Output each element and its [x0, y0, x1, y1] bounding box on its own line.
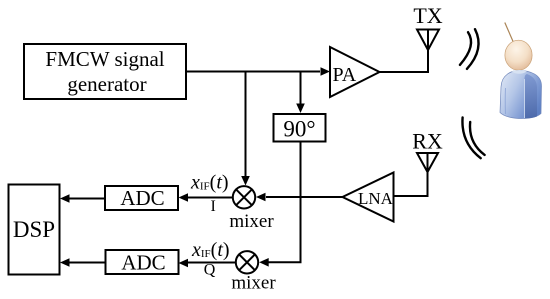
person target — [500, 23, 542, 119]
block 90 degree phase shifter — [274, 114, 326, 142]
person right arm shading — [525, 74, 538, 119]
mixer Q (multiplier) — [231, 251, 276, 293]
block FMCW signal generator — [24, 44, 186, 99]
svg-text:mixer: mixer — [231, 273, 276, 294]
wire RX antenna to LNA — [394, 172, 428, 196]
label xIF(t) Q-channel — [191, 239, 230, 279]
svg-text:xIF(t): xIF(t) — [191, 239, 230, 261]
svg-text:FMCW signal: FMCW signal — [45, 47, 164, 71]
svg-text:LNA: LNA — [358, 189, 394, 208]
wire 90-degree box to mixer Q — [259, 142, 300, 267]
wire branch down to mixer I (LO) — [241, 72, 250, 186]
wire mixer I to ADC (I channel) — [179, 193, 234, 202]
svg-text:ADC: ADC — [121, 251, 165, 275]
TX radiated wave arcs — [460, 29, 479, 69]
wire ADC Q to DSP — [60, 258, 105, 267]
block ADC Q — [106, 250, 179, 275]
svg-text:90°: 90° — [283, 117, 315, 142]
amplifier PA — [330, 47, 380, 97]
svg-text:mixer: mixer — [229, 211, 274, 232]
person head — [505, 40, 532, 70]
wire FMCW output to PA — [186, 67, 330, 76]
svg-text:generator: generator — [67, 72, 146, 96]
person collar — [512, 70, 528, 74]
svg-text:ADC: ADC — [120, 186, 164, 210]
label xIF(t) I-channel — [190, 172, 229, 216]
wire branch down to 90-degree box — [296, 72, 305, 114]
person body — [500, 71, 542, 119]
wire ADC I to DSP — [60, 194, 105, 203]
svg-text:PA: PA — [333, 64, 357, 86]
svg-text:DSP: DSP — [13, 217, 55, 242]
antenna TX — [413, 3, 442, 50]
svg-text:RX: RX — [412, 129, 443, 154]
mixer I (multiplier) — [229, 186, 274, 232]
wire mixer Q to ADC (Q channel) — [179, 259, 236, 268]
wire PA to TX antenna — [380, 49, 429, 72]
svg-text:xIF(t): xIF(t) — [190, 172, 229, 194]
block ADC I — [105, 186, 178, 210]
svg-text:Q: Q — [204, 262, 216, 279]
svg-text:I: I — [211, 198, 216, 215]
RX reflected wave arcs — [462, 118, 484, 159]
person arm highlight seam — [524, 79, 526, 118]
amplifier LNA — [343, 173, 394, 222]
block DSP — [9, 185, 60, 275]
antenna RX — [412, 129, 443, 173]
person left arm seam — [504, 88, 506, 114]
person hair strand — [505, 23, 514, 43]
wire LNA to mixer I — [256, 193, 343, 202]
svg-text:TX: TX — [413, 3, 442, 28]
